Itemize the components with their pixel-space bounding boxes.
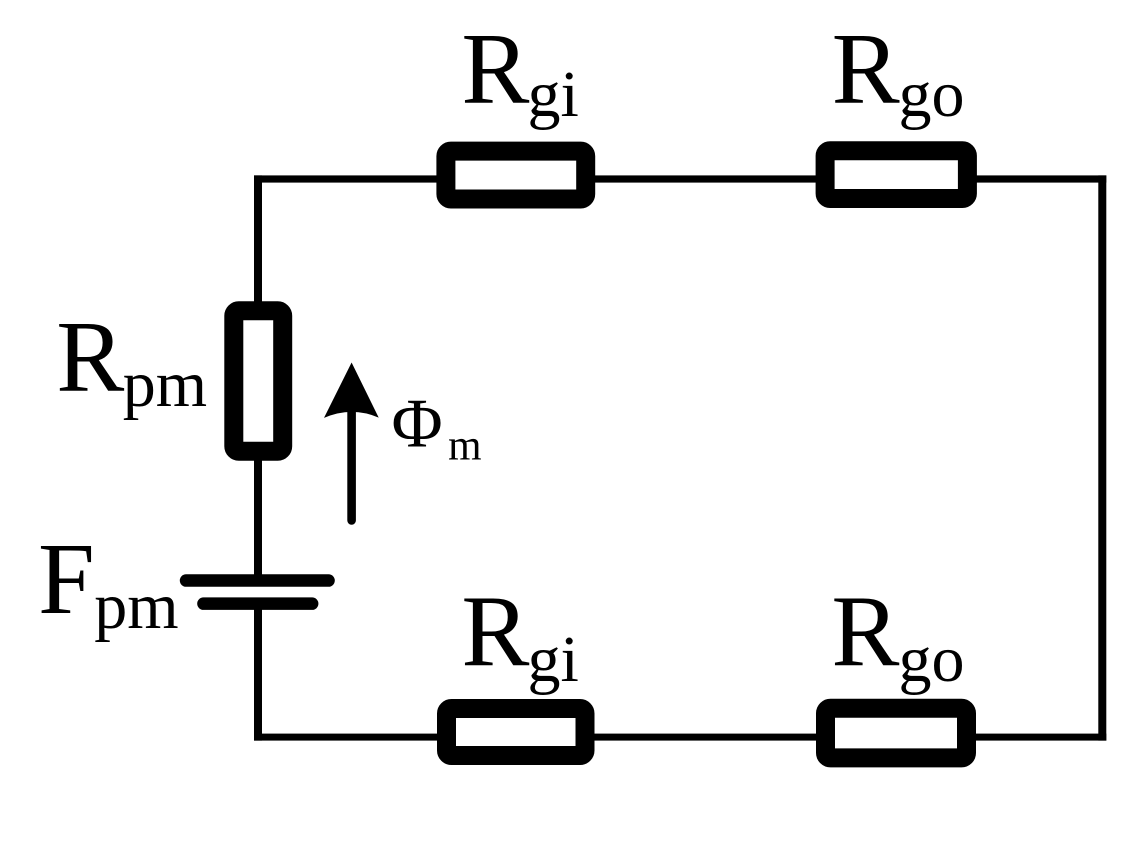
resistor Rgi top xyxy=(446,151,586,199)
svg-text:go: go xyxy=(899,58,965,131)
svg-text:R: R xyxy=(461,576,529,689)
wire top xyxy=(254,175,1106,182)
wire right xyxy=(1098,175,1106,740)
svg-text:F: F xyxy=(38,523,95,636)
wire left upper xyxy=(254,175,262,580)
svg-text:pm: pm xyxy=(123,348,207,421)
svg-text:R: R xyxy=(832,13,900,126)
svg-text:gi: gi xyxy=(528,58,579,131)
svg-text:m: m xyxy=(448,423,481,470)
svg-text:R: R xyxy=(831,576,899,689)
MMF source Fpm: long bar xyxy=(180,574,335,587)
wire left lower xyxy=(254,600,262,741)
svg-text:R: R xyxy=(461,13,529,126)
svg-text:go: go xyxy=(899,623,965,696)
resistor Rpm (vertical) xyxy=(234,311,283,452)
resistor Rgi bottom xyxy=(447,709,586,756)
resistor Rgo top xyxy=(825,151,967,199)
svg-text:R: R xyxy=(56,301,124,414)
resistor Rgo bottom xyxy=(826,708,967,758)
MMF source Fpm: short bar xyxy=(197,597,318,610)
svg-text:Φ: Φ xyxy=(392,386,443,463)
wire bottom xyxy=(254,734,1106,741)
flux arrow shaft xyxy=(347,410,356,521)
svg-text:pm: pm xyxy=(94,570,178,643)
svg-text:gi: gi xyxy=(528,623,579,696)
flux arrow head xyxy=(324,363,379,418)
